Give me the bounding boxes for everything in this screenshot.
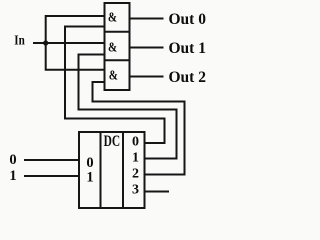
- svg-text:DC: DC: [104, 133, 121, 150]
- svg-text:3: 3: [132, 183, 139, 198]
- decoder internal divider right: [122, 132, 124, 208]
- wire decoder out0 to gate1 lower input: [65, 27, 165, 144]
- wire decoder input 0: [25, 159, 79, 161]
- wire decoder out1 to gate2 lower input: [79, 55, 177, 159]
- svg-text:0: 0: [132, 135, 139, 150]
- wire Out2: [130, 76, 163, 78]
- wire Out1: [130, 47, 163, 49]
- svg-text:&: &: [109, 67, 118, 82]
- wire Out0: [130, 18, 163, 20]
- svg-text:1: 1: [86, 169, 93, 185]
- decoder internal divider left: [100, 132, 102, 208]
- svg-text:2: 2: [132, 167, 139, 182]
- svg-text:&: &: [108, 39, 117, 54]
- svg-text:In: In: [14, 34, 25, 49]
- svg-text:0: 0: [9, 152, 16, 168]
- svg-text:Out 2: Out 2: [169, 69, 207, 86]
- decoder DC box: [79, 132, 145, 208]
- wire In branch to gate1 and gate3 inputs: [46, 16, 105, 70]
- svg-text:1: 1: [9, 168, 16, 184]
- wire In horizontal: [34, 42, 105, 44]
- wire decoder out3 stub: [145, 191, 169, 193]
- divider gate2/gate3: [105, 59, 130, 61]
- svg-text:Out 1: Out 1: [169, 40, 206, 57]
- svg-text:1: 1: [132, 151, 139, 166]
- wire decoder input 1: [25, 175, 79, 177]
- AND gate column box (U1..U3): [105, 3, 130, 90]
- divider gate1/gate2: [105, 31, 130, 33]
- svg-text:Out 0: Out 0: [169, 11, 207, 28]
- node junction dot on In line: [43, 40, 48, 45]
- wire decoder out2 to gate3 lower input: [93, 82, 185, 175]
- svg-text:&: &: [108, 10, 117, 25]
